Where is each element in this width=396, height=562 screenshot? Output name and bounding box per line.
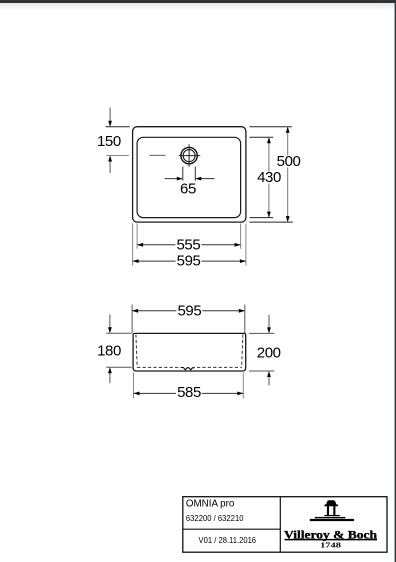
svg-text:595: 595 [177,253,201,270]
svg-text:V01 / 28.11.2016: V01 / 28.11.2016 [199,535,257,545]
svg-text:150: 150 [97,133,121,150]
svg-text:200: 200 [257,344,281,361]
svg-text:430: 430 [257,169,281,186]
svg-text:632200 / 632210: 632200 / 632210 [186,513,244,523]
svg-text:OMNIA pro: OMNIA pro [186,499,235,510]
svg-text:595: 595 [177,302,201,319]
svg-text:585: 585 [177,384,201,401]
svg-text:65: 65 [180,180,196,197]
svg-text:1748: 1748 [320,541,341,550]
svg-text:500: 500 [277,153,301,170]
svg-text:180: 180 [97,343,121,360]
svg-text:555: 555 [176,236,200,253]
